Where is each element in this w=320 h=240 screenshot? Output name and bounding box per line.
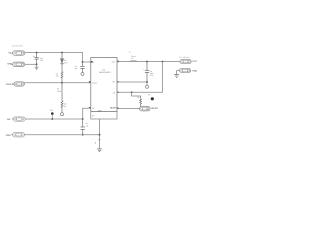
node junction OUT sense	[162, 61, 164, 63]
svg-text:5V 150mA: 5V 150mA	[179, 56, 190, 59]
svg-text:TP2: TP2	[50, 109, 53, 112]
svg-text:OUT: OUT	[112, 61, 116, 64]
resistor R3 pull-up	[132, 92, 142, 108]
svg-text:GND: GND	[192, 69, 197, 72]
svg-text:5.6V: 5.6V	[64, 62, 68, 65]
svg-text:VIN-EN: VIN-EN	[6, 83, 14, 86]
wire EN from P3 to U1	[24, 82, 91, 84]
connector P6 OUT	[180, 59, 198, 63]
pin number marks	[91, 61, 93, 63]
connector J1 RESET	[140, 107, 160, 111]
ground circle below R2	[61, 113, 64, 116]
ground below C1	[35, 64, 39, 69]
svg-text:1nF: 1nF	[86, 125, 89, 128]
resistor R2	[57, 83, 67, 113]
connector P3 VIN-EN	[6, 82, 25, 86]
capacitor C2	[75, 62, 85, 72]
node junction C4 top	[146, 61, 148, 63]
node junction C2 top	[82, 61, 84, 63]
node junction C5 bottom	[82, 134, 84, 136]
wire U1 PG pin to C4	[117, 81, 147, 83]
exposed pad EP box	[91, 112, 117, 120]
node junction C5 top	[82, 118, 84, 120]
svg-text:RESET: RESET	[110, 107, 118, 110]
svg-text:MAX16910: MAX16910	[99, 71, 111, 74]
wire FB sense	[117, 62, 163, 93]
resistor R1	[56, 72, 63, 83]
capacitor C1	[33, 53, 44, 65]
node junction C4 bottom	[146, 81, 148, 83]
test point TP2 on EN wire	[50, 109, 54, 120]
node junction C1 bottom	[36, 63, 38, 65]
wire RESET	[117, 108, 140, 110]
connector P2 GND	[7, 62, 24, 66]
wire GND from P2	[25, 63, 37, 65]
node junction pull-up tap	[131, 91, 133, 93]
node junction C1 top	[36, 52, 38, 54]
connector P7 GND right	[177, 68, 198, 72]
node junction RESET wire	[140, 108, 142, 110]
svg-text:L1: L1	[129, 51, 131, 54]
svg-text:R3: R3	[137, 96, 139, 99]
wire GND rail from P5	[24, 134, 99, 136]
ground symbol main	[97, 149, 102, 152]
svg-text:RESET: RESET	[151, 107, 159, 110]
svg-text:C1: C1	[33, 55, 35, 58]
wire IN rail	[25, 53, 91, 63]
IC U1 regulator MAX16910	[89, 58, 119, 113]
svg-text:IN: IN	[9, 52, 12, 55]
node junction D1 top	[61, 52, 63, 54]
node junction GND stem	[99, 134, 101, 136]
svg-text:+: +	[143, 69, 144, 71]
svg-text:100k: 100k	[57, 90, 61, 93]
node junction EN wire	[61, 82, 63, 84]
connector P5 GND2	[6, 133, 25, 137]
svg-text:10k: 10k	[56, 75, 59, 78]
wire U1 GND stem	[99, 119, 101, 149]
svg-text:TP1: TP1	[148, 94, 151, 97]
svg-text:1µF: 1µF	[75, 67, 78, 70]
capacitor C4	[143, 62, 154, 83]
svg-text:GND: GND	[6, 134, 11, 137]
ground below P7	[174, 71, 179, 78]
svg-text:3.3V TO 5.5V: 3.3V TO 5.5V	[12, 45, 24, 48]
connector P1 IN	[9, 51, 25, 55]
wire OUT rail	[117, 61, 180, 63]
connector P4 EN	[7, 117, 25, 121]
inductor L1	[129, 51, 137, 62]
test point TP1 dark dot	[148, 94, 154, 101]
svg-text:EN: EN	[7, 118, 10, 121]
ground circle below C4	[146, 82, 149, 88]
svg-text:OUT: OUT	[192, 60, 197, 63]
wire U1 pin3 from P4 via corner	[25, 108, 91, 119]
capacitor C5	[81, 119, 89, 135]
svg-text:10V: 10V	[40, 59, 44, 62]
svg-text:CT: CT	[92, 107, 94, 110]
svg-text:EN/UV: EN/UV	[92, 81, 98, 84]
ground circle below C2	[81, 72, 84, 75]
diode D1	[60, 53, 68, 72]
svg-text:2: 2	[95, 141, 97, 144]
